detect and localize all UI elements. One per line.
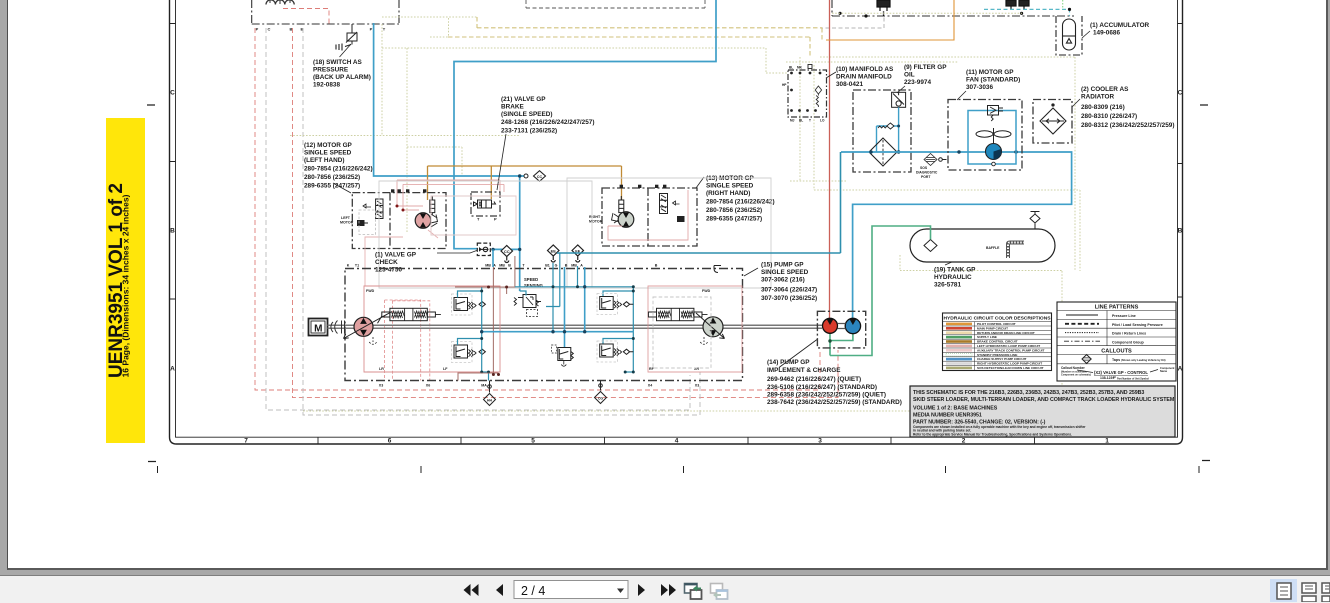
svg-text:B1: B1 (545, 264, 550, 268)
svg-text:Callout Number: Callout Number (1061, 366, 1085, 370)
vent diamond HH (484, 381, 496, 406)
leader line 14 (779, 340, 817, 368)
case drain pump P2 (700, 337, 708, 344)
brake maroon bus (455, 256, 515, 381)
left motor ports (391, 189, 426, 192)
svg-text:DRAIN MANIFOLD: DRAIN MANIFOLD (836, 74, 892, 81)
svg-text:280-8312 (236/242/252/257/259): 280-8312 (236/242/252/257/259) (1081, 122, 1174, 129)
previous view icon (685, 584, 702, 600)
fan motor group 11 box (948, 100, 1022, 171)
svg-text:MB: MB (571, 264, 577, 268)
supply green from tank (830, 226, 931, 356)
svg-text:7: 7 (244, 438, 248, 445)
vent diamond CG (595, 381, 607, 404)
svg-text:SINGLE SPEED: SINGLE SPEED (706, 183, 754, 190)
svg-text:C: C (170, 90, 175, 97)
svg-text:(1) VALVE GP: (1) VALVE GP (375, 252, 417, 259)
leader line 2 (1072, 99, 1080, 107)
svg-text:T: T (809, 119, 811, 123)
svg-text:(13) MOTOR GP: (13) MOTOR GP (706, 175, 755, 182)
svg-text:BRAKE CONTROL CIRCUIT: BRAKE CONTROL CIRCUIT (977, 340, 1018, 344)
svg-text:223-9974: 223-9974 (904, 79, 931, 86)
svg-text:307-3064 (226/247): 307-3064 (226/247) (761, 287, 817, 294)
svg-text:P: P (256, 27, 259, 32)
prev page button (496, 584, 503, 596)
drain manifold 10 (788, 70, 827, 117)
left parking brake valve (358, 199, 384, 226)
svg-text:EE: EE (551, 248, 557, 253)
svg-text:(11) MOTOR GP: (11) MOTOR GP (966, 69, 1014, 76)
svg-text:OIL: OIL (904, 72, 915, 79)
svg-text:(1) ACCUMULATOR: (1) ACCUMULATOR (1090, 22, 1150, 29)
salmon loop lines left motor (365, 180, 504, 286)
svg-text:LEFT HYDROSTATIC LOOP PUMP CIR: LEFT HYDROSTATIC LOOP PUMP CIRCUIT (977, 344, 1040, 348)
pilot line red dashed P (255, 28, 820, 390)
charge supply teal horizontal (557, 252, 841, 254)
right speed valve (619, 196, 624, 213)
left motor M1 (415, 213, 437, 229)
svg-text:CC: CC (504, 249, 510, 254)
right brake spool (660, 194, 685, 222)
svg-text:K: K (347, 264, 350, 268)
leader line 10 (826, 72, 836, 78)
svg-text:LINE PATTERNS: LINE PATTERNS (1095, 305, 1139, 311)
frame zone letters (170, 90, 1183, 445)
pump box port letters top (347, 264, 658, 268)
check valve 1 (477, 243, 490, 255)
svg-text:HH: HH (487, 398, 492, 402)
text FWD LR LF (366, 289, 448, 371)
svg-text:(18) SWITCH AS: (18) SWITCH AS (313, 59, 362, 66)
svg-text:289-6355 (247/257): 289-6355 (247/257) (304, 183, 360, 190)
drive pump P1 (344, 312, 393, 339)
svg-text:SINGLE SPEED: SINGLE SPEED (761, 269, 809, 276)
svg-text:BAFFLE: BAFFLE (986, 246, 1000, 250)
svg-text:SKID STEER LOADER, MULTI-TERRA: SKID STEER LOADER, MULTI-TERRAIN LOADER,… (913, 397, 1175, 403)
svg-text:289-6358 (236/242/252/257/259): 289-6358 (236/242/252/257/259) (QUIET) (767, 392, 886, 399)
orange pilot bus motors (428, 166, 622, 200)
label 12 motor gp left (304, 142, 373, 190)
svg-text:280-7856 (236/252): 280-7856 (236/252) (706, 207, 762, 214)
svg-text:FWD: FWD (366, 289, 375, 293)
svg-text:RIGHT HYDROSTATIC LOOP PUMP CI: RIGHT HYDROSTATIC LOOP PUMP CIRCUIT (977, 362, 1042, 366)
tank suction diamond (924, 240, 937, 252)
svg-text:MJ: MJ (790, 119, 795, 123)
svg-text:238-7642 (236/242/252/257/259): 238-7642 (236/242/252/257/259) (STANDARD… (767, 399, 902, 406)
svg-text:5: 5 (531, 438, 535, 445)
svg-text:FWD: FWD (702, 289, 711, 293)
leader line 9 (897, 86, 905, 93)
svg-text:MAIN PUMP CIRCUIT: MAIN PUMP CIRCUIT (977, 326, 1008, 330)
fan propeller (976, 128, 1011, 144)
svg-text:Component Group: Component Group (1112, 340, 1145, 344)
svg-text:LEFT: LEFT (341, 216, 351, 220)
svg-text:280-7856 (236/252): 280-7856 (236/252) (304, 174, 360, 181)
svg-text:CHARGE SUPPLY PUMP CIRCUIT: CHARGE SUPPLY PUMP CIRCUIT (977, 357, 1027, 361)
servo arrow pump P1 (344, 312, 393, 339)
pilot dashed boxes spool left (385, 300, 430, 381)
svg-text:308-0421: 308-0421 (836, 81, 863, 88)
filter element diamond (869, 138, 897, 166)
junction dots top-right (838, 8, 1071, 18)
svg-text:138-1239: 138-1239 (1100, 376, 1114, 380)
svg-text:(12) MOTOR GP: (12) MOTOR GP (304, 142, 353, 149)
first page button (464, 584, 479, 596)
svg-text:C: C (268, 27, 271, 32)
svg-text:SOS: SOS (920, 166, 928, 170)
svg-text:LF: LF (443, 367, 448, 371)
svg-text:HYDRAULIC CIRCUIT COLOR DESCRI: HYDRAULIC CIRCUIT COLOR DESCRIPTIONS (943, 316, 1051, 322)
svg-text:(9) FILTER GP: (9) FILTER GP (904, 64, 947, 71)
charge blue: motor feed riser (374, 23, 525, 291)
supply return teal riser (840, 152, 842, 253)
gray loop boxes (379, 178, 771, 381)
svg-text:CHECK: CHECK (375, 259, 398, 266)
svg-text:2 / 4: 2 / 4 (521, 584, 545, 598)
right motor group box (602, 188, 697, 246)
svg-text:CG: CG (598, 396, 603, 400)
svg-text:2: 2 (962, 438, 966, 445)
svg-text:RF: RF (649, 367, 655, 371)
teal dashed pilot top-right (984, 9, 1070, 16)
border frame outer (170, 0, 1183, 444)
color descriptions table (943, 313, 1052, 371)
junction dots sensing bus (552, 285, 635, 373)
travel servo valve left (382, 308, 441, 320)
leader line 11 (957, 91, 966, 100)
yellow volume banner (106, 118, 145, 443)
svg-text:(X2) VALVE GP - CONTROL: (X2) VALVE GP - CONTROL (1094, 370, 1148, 375)
pilot jumper red dashed top (283, 9, 329, 25)
svg-text:HYDRAULIC: HYDRAULIC (934, 274, 972, 281)
svg-text:T1: T1 (355, 264, 359, 268)
electric motor M (309, 319, 328, 336)
svg-text:289-6355 (247/257): 289-6355 (247/257) (706, 216, 762, 223)
cooler diamond (1040, 104, 1066, 134)
tap diamonds CC EE FF (501, 245, 584, 263)
left motor group box (352, 193, 446, 249)
SOS diagnostic port (924, 154, 947, 166)
text FWD RF XR (649, 289, 711, 371)
svg-text:B: B (655, 264, 658, 268)
svg-text:280-7854 (216/226/242): 280-7854 (216/226/242) (706, 199, 775, 206)
fan feed blue rect (968, 111, 1016, 165)
svg-text:C: C (1178, 90, 1183, 97)
main reliefs right pump (597, 294, 633, 363)
svg-text:A: A (580, 264, 583, 268)
svg-text:MB: MB (485, 264, 491, 268)
tank breather (1030, 212, 1040, 230)
wire filter element to main line (877, 107, 899, 152)
leader line check valve (437, 250, 477, 253)
svg-text:Refer to the appropriate Servi: Refer to the appropriate Service Manual … (913, 433, 1072, 437)
implement pump circle red (823, 318, 838, 333)
charge blue: brake feed loop (454, 0, 716, 249)
pdf viewer toolbar (0, 575, 1330, 603)
label 19 tank (934, 267, 976, 289)
next page button (638, 584, 645, 596)
svg-text:MK: MK (797, 66, 803, 70)
label 13 motor gp right (706, 175, 775, 223)
right motor ports (620, 185, 667, 188)
page number combobox (514, 581, 628, 599)
junction dots blue (491, 174, 521, 251)
svg-text:RADIATOR: RADIATOR (1081, 94, 1115, 101)
svg-text:X3: X3 (695, 384, 699, 388)
svg-text:RETURN AND/OR DRAIN LINE CIRCU: RETURN AND/OR DRAIN LINE CIRCUIT (977, 331, 1035, 335)
svg-text:STANDBY PRESSURE LINE: STANDBY PRESSURE LINE (977, 353, 1017, 357)
svg-text:Pressure Line: Pressure Line (1112, 314, 1136, 318)
svg-text:P: P (494, 217, 497, 222)
svg-text:248-1268 (216/226/242/247/257): 248-1268 (216/226/242/247/257) (501, 119, 594, 126)
svg-text:MOTOR: MOTOR (340, 221, 354, 225)
svg-text:(SINGLE SPEED): (SINGLE SPEED) (501, 111, 553, 118)
svg-text:SINGLE SPEED: SINGLE SPEED (304, 150, 352, 157)
label 11 motor gp fan (966, 69, 1020, 91)
svg-text:280-7854 (216/226/242): 280-7854 (216/226/242) (304, 166, 373, 173)
svg-text:SPEED: SPEED (524, 277, 538, 282)
tap diamond SS (534, 171, 546, 182)
label 10 manifold (836, 66, 894, 88)
svg-text:SOS DETECTION/LEAD DOWN LINE C: SOS DETECTION/LEAD DOWN LINE CIRCUIT (977, 366, 1044, 370)
charge pump circle blue (845, 318, 860, 333)
filter group 9 box (853, 90, 911, 172)
charge blue pump bus (482, 249, 634, 347)
orange pilot riser (826, 0, 954, 40)
svg-text:MA: MA (481, 384, 487, 388)
main pump red line (829, 0, 831, 319)
svg-text:B: B (1178, 228, 1183, 235)
svg-text:(10) MANIFOLD AS: (10) MANIFOLD AS (836, 66, 894, 73)
svg-text:PORT: PORT (921, 175, 931, 179)
svg-text:123-4750: 123-4750 (375, 267, 402, 274)
svg-text:LO: LO (820, 119, 825, 123)
label 18 switch as pressure (313, 59, 371, 89)
solenoid valve A (top) (877, 0, 890, 16)
speed sensing label (524, 277, 543, 288)
svg-text:(RIGHT HAND): (RIGHT HAND) (706, 190, 750, 197)
label 21 valve gp brake (501, 96, 594, 135)
tan dashed pilot lines top (448, 17, 822, 57)
svg-text:Taps: Taps (1112, 358, 1120, 362)
cooler 2 box (1033, 100, 1072, 144)
salmon loop right motor (608, 190, 688, 240)
svg-text:X6: X6 (426, 384, 430, 388)
svg-text:Part Number of Unit Symbol: Part Number of Unit Symbol (1117, 378, 1149, 381)
label 2 cooler (1081, 86, 1174, 129)
svg-text:T: T (477, 217, 480, 222)
junction dots filter (897, 125, 900, 154)
svg-text:X4: X4 (648, 384, 652, 388)
charge blue main line (841, 152, 1072, 319)
hydraulic tank 19 (910, 229, 1055, 262)
svg-text:233-7131 (236/252): 233-7131 (236/252) (501, 128, 557, 135)
svg-text:IMPLEMENT & CHARGE: IMPLEMENT & CHARGE (767, 367, 841, 374)
svg-text:AUXILIARY TRACK CONTROL PUMP C: AUXILIARY TRACK CONTROL PUMP CIRCUIT (977, 348, 1045, 352)
svg-text:Component on schematic): Component on schematic) (1061, 374, 1091, 377)
next view icon (disabled) (711, 584, 728, 600)
last page button (661, 584, 676, 596)
FWD salmon box right (648, 286, 742, 372)
svg-text:THIS SCHEMATIC IS FOR THE 216B: THIS SCHEMATIC IS FOR THE 216B3, 226B3, … (913, 390, 1144, 396)
svg-text:6: 6 (388, 438, 392, 445)
label 1 valve gp check (375, 252, 417, 274)
valve group aux (top-right, cut off) (526, 0, 1074, 16)
pilot line red dashed B1 (293, 28, 839, 398)
right motor M2 (612, 212, 634, 228)
svg-text:Pilot / Load Sensing Pressure: Pilot / Load Sensing Pressure (1112, 323, 1163, 327)
svg-text:269-9462 (216/226/247) (QUIET): 269-9462 (216/226/247) (QUIET) (767, 376, 861, 383)
frame zone ticks (170, 24, 1183, 445)
svg-text:PILOT CONTROL CIRCUIT: PILOT CONTROL CIRCUIT (977, 322, 1016, 326)
junction dot green loop (828, 339, 831, 342)
svg-text:(BACK UP ALARM): (BACK UP ALARM) (313, 74, 371, 81)
leader line 12 (333, 183, 351, 193)
charge bus left pump (482, 287, 489, 381)
svg-text:BL: BL (789, 66, 793, 70)
wire reliefs left to bus (458, 291, 482, 345)
svg-text:(15) PUMP GP: (15) PUMP GP (761, 262, 804, 269)
speed sensing valve (514, 295, 541, 317)
filter bypass spring check (878, 123, 894, 129)
fan motor circle (986, 144, 1002, 160)
label 14 implement pump (767, 359, 902, 406)
svg-text:P: P (370, 27, 373, 32)
svg-text:MEDIA NUMBER UENR3951: MEDIA NUMBER UENR3951 (913, 412, 982, 418)
line patterns table (1057, 302, 1176, 381)
crop marks (147, 105, 1210, 462)
teal speed sensing wires (515, 253, 633, 372)
drain line gray dashed C (266, 28, 690, 410)
fan relief valve (988, 106, 1004, 122)
svg-text:MOTOR: MOTOR (589, 220, 603, 224)
pump box port letters bottom (379, 384, 699, 388)
svg-text:PRESSURE: PRESSURE (313, 67, 349, 74)
svg-text:A: A (170, 366, 175, 373)
border frame inner (176, 0, 1178, 437)
svg-text:(Shown only Leading Vehicle by: (Shown only Leading Vehicle by Kit) (1121, 358, 1166, 362)
svg-text:(LEFT HAND): (LEFT HAND) (304, 157, 344, 164)
svg-text:X3: X3 (379, 384, 383, 388)
svg-text:BRAKE: BRAKE (501, 104, 524, 111)
gray pilot box left motor (359, 210, 376, 235)
svg-text:DIAGNOSTIC: DIAGNOSTIC (916, 171, 938, 175)
svg-text:T: T (522, 264, 525, 268)
pump box vent (714, 266, 721, 273)
leader line accumulator (1082, 31, 1090, 38)
gray dashed spool boxes (653, 297, 711, 368)
svg-text:RIGHT: RIGHT (589, 215, 601, 219)
svg-text:4: 4 (675, 438, 679, 445)
svg-text:FAN (STANDARD): FAN (STANDARD) (966, 77, 1020, 84)
valve group loader control (top-left, cut off) (252, 0, 399, 24)
svg-text:(21) VALVE GP: (21) VALVE GP (501, 96, 546, 103)
pressure switch 18 (336, 24, 357, 57)
label 15 pump gp (761, 262, 817, 303)
svg-text:149-0686: 149-0686 (1093, 30, 1120, 37)
svg-text:HP: HP (782, 83, 787, 87)
svg-text:B: B (565, 264, 568, 268)
svg-text:1: 1 (1105, 438, 1109, 445)
svg-text:G: G (555, 264, 558, 268)
svg-text:Drain / Return Lines: Drain / Return Lines (1112, 332, 1146, 336)
svg-text:280-8309 (216): 280-8309 (216) (1081, 104, 1125, 111)
brake valve 21 (471, 192, 500, 216)
svg-text:T: T (383, 27, 386, 32)
junction dots brake bus (487, 286, 508, 377)
solenoid valve B (top) (1006, 0, 1029, 9)
green loop implement (830, 334, 853, 342)
filter bypass element (892, 92, 906, 107)
implement pump 14 box (817, 311, 865, 348)
svg-text:280-8310 (226/247): 280-8310 (226/247) (1081, 113, 1137, 120)
svg-text:326-5781: 326-5781 (934, 282, 961, 289)
charge relief valves left pair (452, 294, 486, 363)
svg-text:SUPPLY LINE: SUPPLY LINE (977, 335, 997, 339)
svg-text:CALLOUTS: CALLOUTS (1101, 348, 1132, 354)
junction dots left bus (480, 290, 490, 374)
junction dots main blue line (869, 150, 1017, 153)
label 9 filter gp oil (904, 64, 947, 86)
tap letters CC EE FF (504, 248, 581, 254)
svg-text:(2) COOLER AS: (2) COOLER AS (1081, 86, 1129, 93)
svg-text:CC: CC (537, 175, 543, 179)
svg-text:236-5106 (216/226/247) (STANDA: 236-5106 (216/226/247) (STANDARD) (767, 384, 877, 391)
leader line 21 (497, 134, 506, 190)
FWD salmon box left (364, 286, 500, 372)
svg-text:BL: BL (799, 119, 803, 123)
schematic info box (910, 386, 1175, 437)
drain gray dashed from valve A (820, 11, 884, 28)
svg-text:VOLUME 1 of 2: BASE MACHINES: VOLUME 1 of 2: BASE MACHINES (913, 405, 998, 411)
olive dotted drain network (290, 13, 1080, 411)
svg-text:A: A (1178, 366, 1183, 373)
travel servo valve right (648, 308, 707, 320)
charge relief mid (552, 345, 574, 366)
left speed valve (430, 196, 435, 215)
svg-text:LR: LR (379, 367, 384, 371)
leader line 13 (696, 177, 704, 188)
leader line 19 (945, 262, 953, 266)
label 1 accumulator (1090, 22, 1150, 37)
page view buttons right (1270, 579, 1297, 602)
svg-text:192-0838: 192-0838 (313, 82, 340, 89)
svg-text:B: B (508, 264, 511, 268)
orifice symbol (524, 174, 528, 178)
drive shaft (328, 325, 823, 328)
leader line 15 (744, 268, 758, 276)
accumulator 1 (1056, 16, 1082, 55)
svg-text:307-3070 (236/252): 307-3070 (236/252) (761, 295, 817, 302)
port letters loader valve (256, 27, 386, 32)
svg-text:3: 3 (818, 438, 822, 445)
travel pump P2 (696, 313, 725, 339)
svg-text:(19) TANK GP: (19) TANK GP (934, 267, 976, 274)
drain line gray dashed B2 (303, 28, 700, 415)
svg-text:307-3062 (216): 307-3062 (216) (761, 277, 805, 284)
TOOLBAR ICONS (464, 579, 1330, 602)
junction dots charge bus (480, 285, 586, 333)
green dotted stub (1062, 0, 1064, 9)
svg-text:307-3036: 307-3036 (966, 84, 993, 91)
case drain pump P1 (369, 337, 377, 344)
svg-text:M: M (314, 324, 322, 335)
svg-text:Name: Name (1160, 369, 1168, 373)
tank baffle plate (1008, 243, 1024, 259)
svg-text:MB: MB (499, 264, 505, 268)
svg-text:B: B (170, 228, 175, 235)
shaft between pumps (838, 324, 846, 329)
